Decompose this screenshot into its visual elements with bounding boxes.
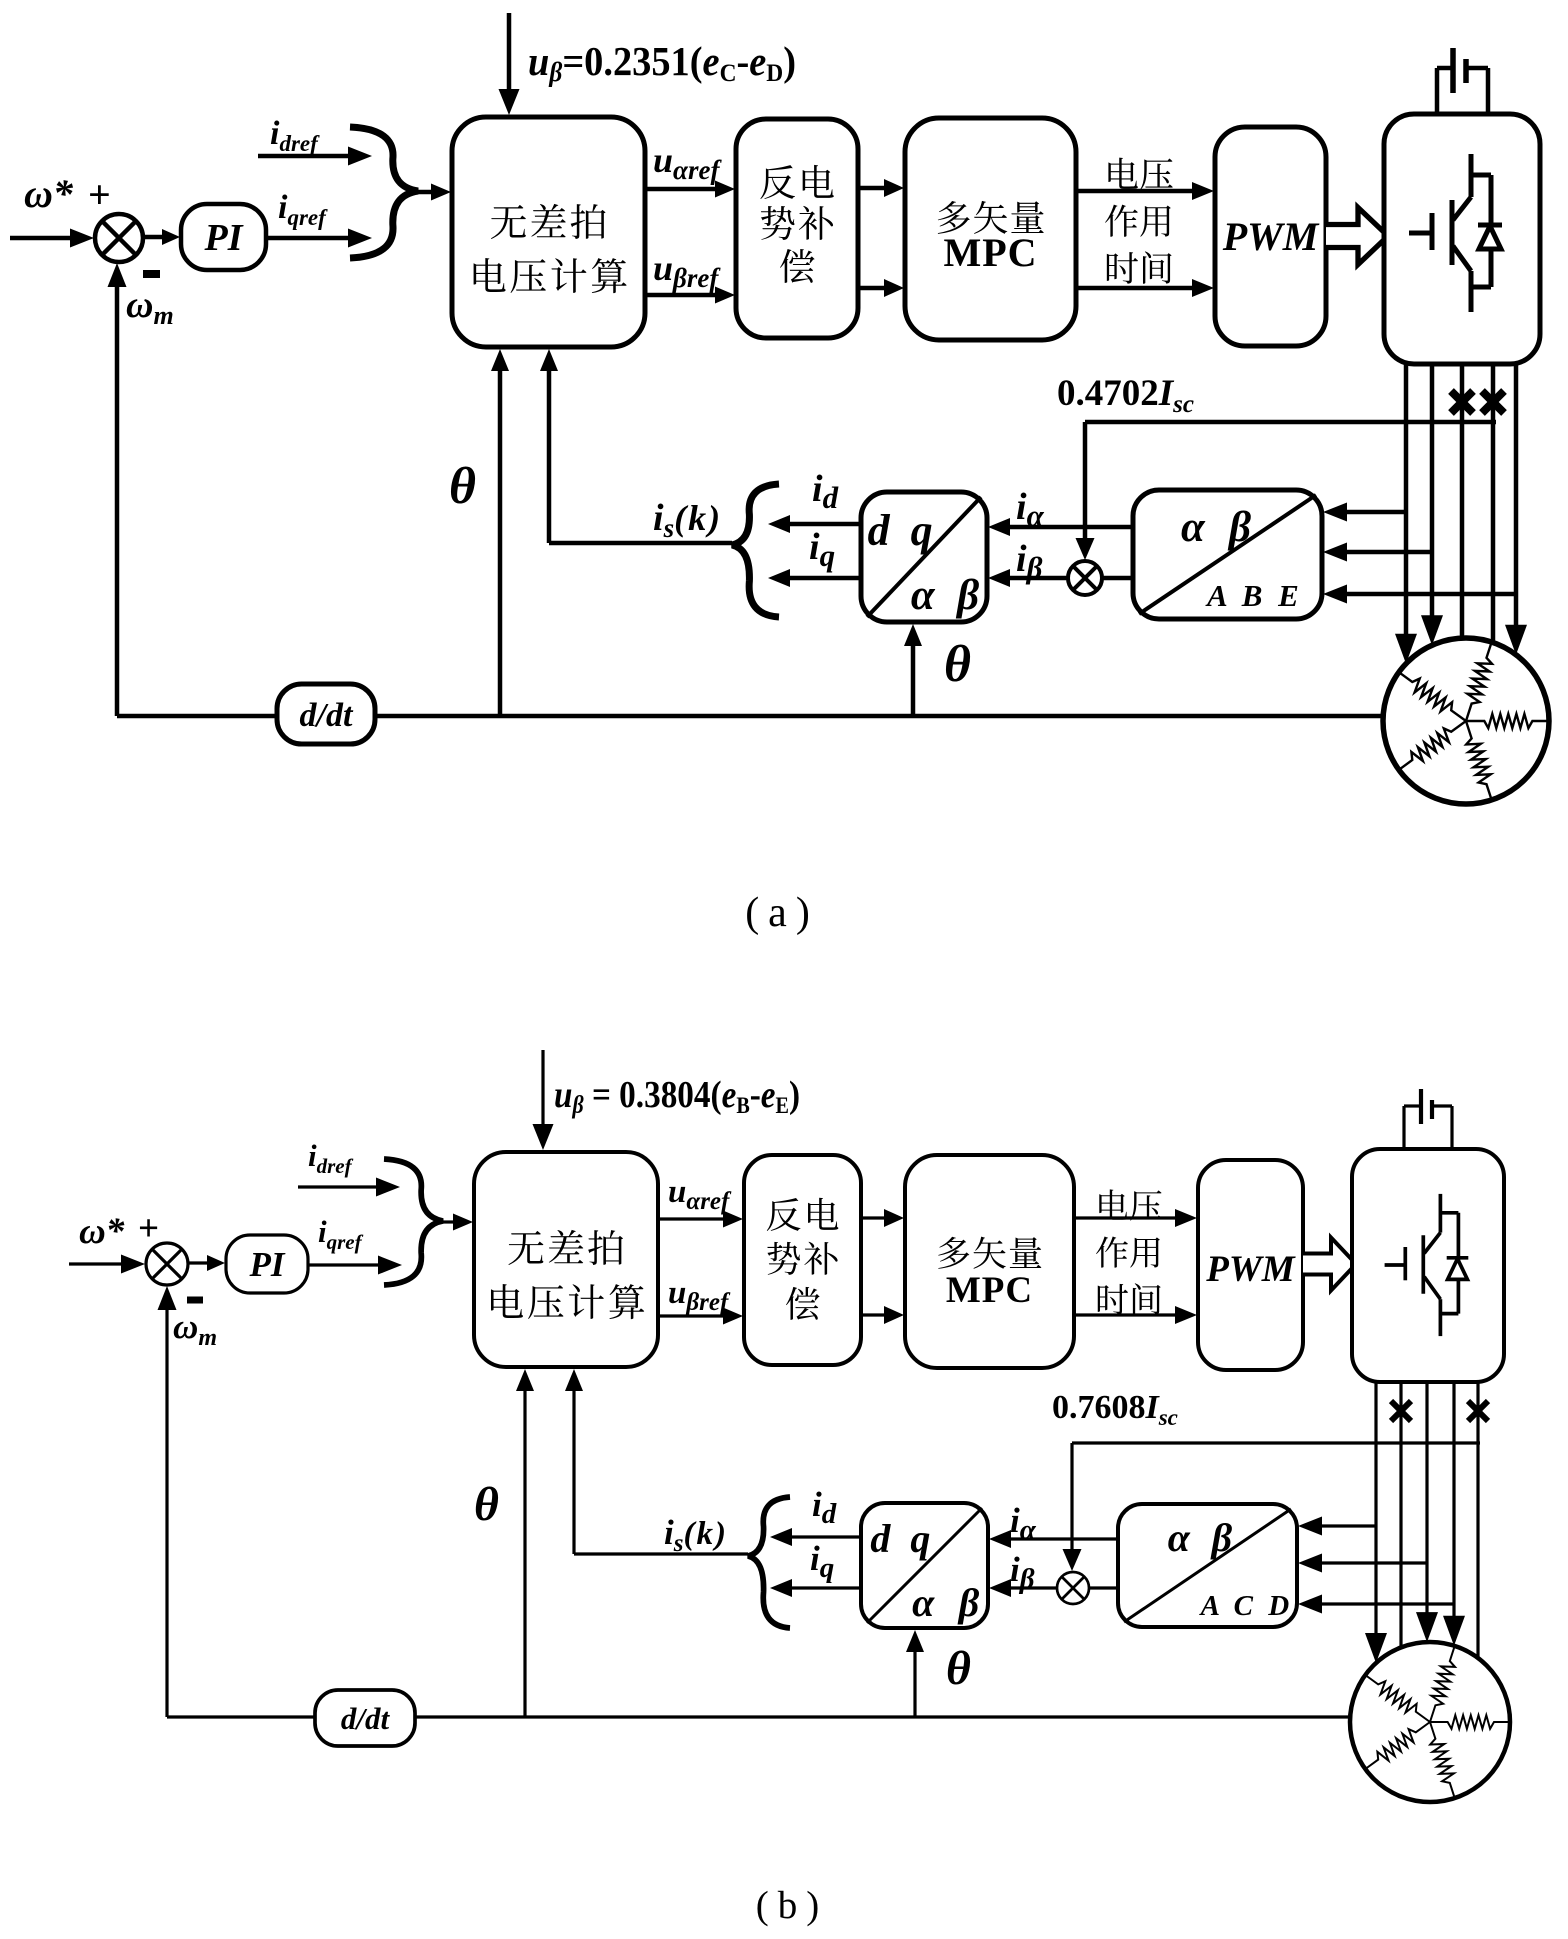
svg-text:d/dt: d/dt (300, 697, 354, 734)
wire u_alpha_ref a (645, 187, 717, 192)
wire feedback into summing junction a (115, 285, 120, 716)
block d/dt speed derivative a (277, 684, 375, 744)
svg-text:uβ=0.2351(eC-eD): uβ=0.2351(eC-eD) (528, 38, 796, 87)
wire sum to PI b (188, 1261, 209, 1264)
wire Isc compensation tap a (1085, 420, 1496, 425)
svg-text:ω*: ω* (79, 1211, 125, 1252)
svg-text:d q: d q (868, 506, 938, 555)
block multi-vector MPC (duoshiliang MPC) b (905, 1155, 1074, 1368)
svg-text:β: β (1210, 1515, 1233, 1560)
wire theta into deadbeat block b (523, 1389, 526, 1717)
summing junction a (95, 214, 143, 262)
label voltage action time (dianya zuoyong shijian) b (1099, 1189, 1128, 1219)
hollow block arrow PWM to inverter b (1303, 1238, 1356, 1291)
block Park transform dq from alpha-beta a (861, 492, 987, 622)
wire i_q output b (790, 1586, 861, 1589)
hollow block arrow PWM to inverter a (1326, 208, 1388, 265)
brace combining i_dref i_qref b (384, 1159, 443, 1285)
summing junction b (146, 1243, 188, 1285)
label voltage action time (dianya zuoyong shijian) a (1108, 158, 1137, 189)
block PWM b (1198, 1160, 1303, 1370)
wire i_alpha a (1008, 525, 1133, 530)
wire Isc compensation tap b (1072, 1441, 1480, 1444)
wire sum to PI a (143, 235, 164, 240)
minus sign at summing junction b (187, 1297, 203, 1304)
minus sign at summing junction a (143, 270, 160, 278)
brace combining i_dref i_qref a (350, 127, 418, 258)
block inverter b (1352, 1149, 1504, 1382)
svg-text:d/dt: d/dt (341, 1701, 391, 1736)
wire position feedback from motor b (167, 1715, 1354, 1718)
block d/dt speed derivative b (315, 1690, 415, 1746)
wires MPC to PWM with voltage action time labels a (1076, 189, 1194, 194)
svg-text:PI: PI (204, 217, 244, 259)
svg-text:+: + (138, 1208, 159, 1249)
wire u_beta injection arrow a (507, 13, 512, 91)
multiplier circle a (1068, 561, 1102, 595)
wire i_alpha b (1009, 1537, 1118, 1540)
svg-text:PWM: PWM (1205, 1249, 1296, 1290)
wire current measurement tap phase B a (1345, 550, 1432, 555)
wire current measurement tap phase C b (1320, 1561, 1427, 1564)
wire i_qref from PI b (308, 1263, 380, 1266)
wire i_dref b (298, 1185, 378, 1188)
wire i_beta through multiplier a (1102, 576, 1133, 581)
wire theta into dq block b (913, 1650, 916, 1717)
wire i_d output a (788, 522, 861, 527)
wire i_beta through multiplier b (1089, 1586, 1118, 1589)
block deadbeat voltage calculation (wuchapai dianya jisuan) a (452, 117, 645, 347)
block Park transform dq from alpha-beta b (861, 1503, 988, 1628)
wire current measurement tap phase E a (1345, 592, 1516, 597)
block inverter a (1384, 114, 1540, 364)
DC source battery symbol b (1402, 1106, 1405, 1149)
block PI speed controller a (181, 204, 266, 270)
svg-text:is(k): is(k) (664, 1513, 728, 1557)
brace combining i_d i_q into i_s(k) b (748, 1497, 790, 1628)
wire inverter output phase C a (1460, 364, 1465, 638)
svg-text:θ: θ (944, 636, 971, 693)
wire u_alpha_ref b (658, 1217, 725, 1220)
svg-text:θ: θ (946, 1642, 971, 1695)
wire inverter output phase D a (1491, 364, 1496, 643)
wire inverter output phase A b (1374, 1382, 1377, 1635)
svg-text:α: α (1168, 1515, 1191, 1560)
motor five-phase PMSM winding symbol a (1383, 638, 1549, 804)
svg-text:d q: d q (870, 1516, 935, 1561)
wire current measurement tap phase D b (1320, 1602, 1454, 1605)
wire i_q output a (788, 576, 861, 581)
svg-text:+: + (88, 172, 111, 217)
svg-text:A B E: A B E (1205, 578, 1303, 613)
wire current measurement tap phase A a (1345, 510, 1406, 515)
wires bemf to MPC a (858, 186, 886, 191)
svg-text:uβ = 0.3804(eB-eE): uβ = 0.3804(eB-eE) (554, 1074, 800, 1119)
wire inverter output phase D b (1452, 1382, 1455, 1618)
wire i_dref a (258, 154, 350, 159)
open-circuit fault X marks b (1391, 1401, 1411, 1421)
open-circuit fault X marks a (1451, 391, 1473, 413)
svg-text:α: α (912, 1580, 935, 1625)
block back-EMF compensation (fandianshi buchang) b (744, 1155, 861, 1365)
wire theta into dq block a (911, 644, 916, 716)
wire i_d output b (790, 1535, 861, 1538)
block Clarke transform alpha-beta from healthy phases b (1118, 1504, 1297, 1627)
brace combining i_d i_q into i_s(k) a (732, 484, 779, 617)
svg-text:ω*: ω* (24, 171, 74, 216)
wire speed reference input b (69, 1262, 123, 1265)
wire position feedback from motor a (117, 714, 1387, 719)
svg-text:MPC: MPC (943, 230, 1037, 275)
IGBT with antiparallel diode icon a (1409, 231, 1431, 236)
motor five-phase PMSM winding symbol b (1350, 1642, 1510, 1802)
block PWM a (1215, 127, 1326, 346)
wire u_beta_ref a (645, 293, 717, 298)
wire theta into deadbeat block a (498, 369, 503, 716)
wire inverter output phase E b (1476, 1382, 1479, 1658)
wire inverter output phase E a (1514, 364, 1519, 627)
svg-text:A C D: A C D (1199, 1590, 1294, 1622)
svg-text:α: α (1181, 504, 1206, 551)
block back-EMF compensation (fandianshi buchang) a (736, 119, 858, 338)
wire inverter output phase C b (1425, 1382, 1428, 1614)
multiplier circle b (1057, 1572, 1089, 1604)
svg-text:is(k): is(k) (653, 497, 722, 543)
wires MPC to PWM with voltage action time labels b (1074, 1216, 1177, 1219)
svg-text:PI: PI (249, 1245, 286, 1284)
block PI speed controller b (226, 1235, 308, 1293)
svg-text:MPC: MPC (946, 1270, 1033, 1311)
block Clarke transform alpha-beta from healthy phases a (1133, 490, 1322, 619)
wire speed reference input a (10, 236, 72, 241)
wire u_beta injection arrow b (541, 1050, 544, 1126)
svg-text:β: β (957, 1580, 980, 1625)
svg-text:(a): (a) (745, 890, 819, 936)
wire u_beta_ref b (658, 1314, 725, 1317)
svg-text:β: β (1227, 504, 1251, 551)
wires bemf to MPC b (861, 1216, 886, 1219)
wire i_qref from PI a (266, 236, 350, 241)
block deadbeat voltage calculation (wuchapai dianya jisuan) b (474, 1152, 658, 1367)
block multi-vector MPC (duoshiliang MPC) a (905, 118, 1076, 340)
svg-text:θ: θ (474, 1478, 499, 1531)
svg-text:PWM: PWM (1222, 214, 1320, 259)
svg-text:θ: θ (449, 458, 476, 515)
DC source battery symbol a (1435, 68, 1440, 114)
wire feedback into summing junction b (165, 1308, 168, 1717)
wire inverter output phase B b (1399, 1382, 1402, 1647)
wire i_s(k) into deadbeat block b (574, 1552, 748, 1555)
wire inverter output phase B a (1430, 364, 1435, 617)
IGBT with antiparallel diode icon b (1385, 1263, 1405, 1267)
svg-text:α: α (911, 572, 936, 619)
svg-text:(b): (b) (756, 1884, 828, 1927)
wire brace into deadbeat block a (418, 190, 433, 195)
svg-text:β: β (955, 572, 979, 619)
wire brace into deadbeat block b (443, 1220, 455, 1223)
wire i_s(k) into deadbeat block a (549, 541, 732, 546)
wire current measurement tap phase A b (1320, 1524, 1376, 1527)
wire inverter output phase A a (1404, 364, 1409, 636)
